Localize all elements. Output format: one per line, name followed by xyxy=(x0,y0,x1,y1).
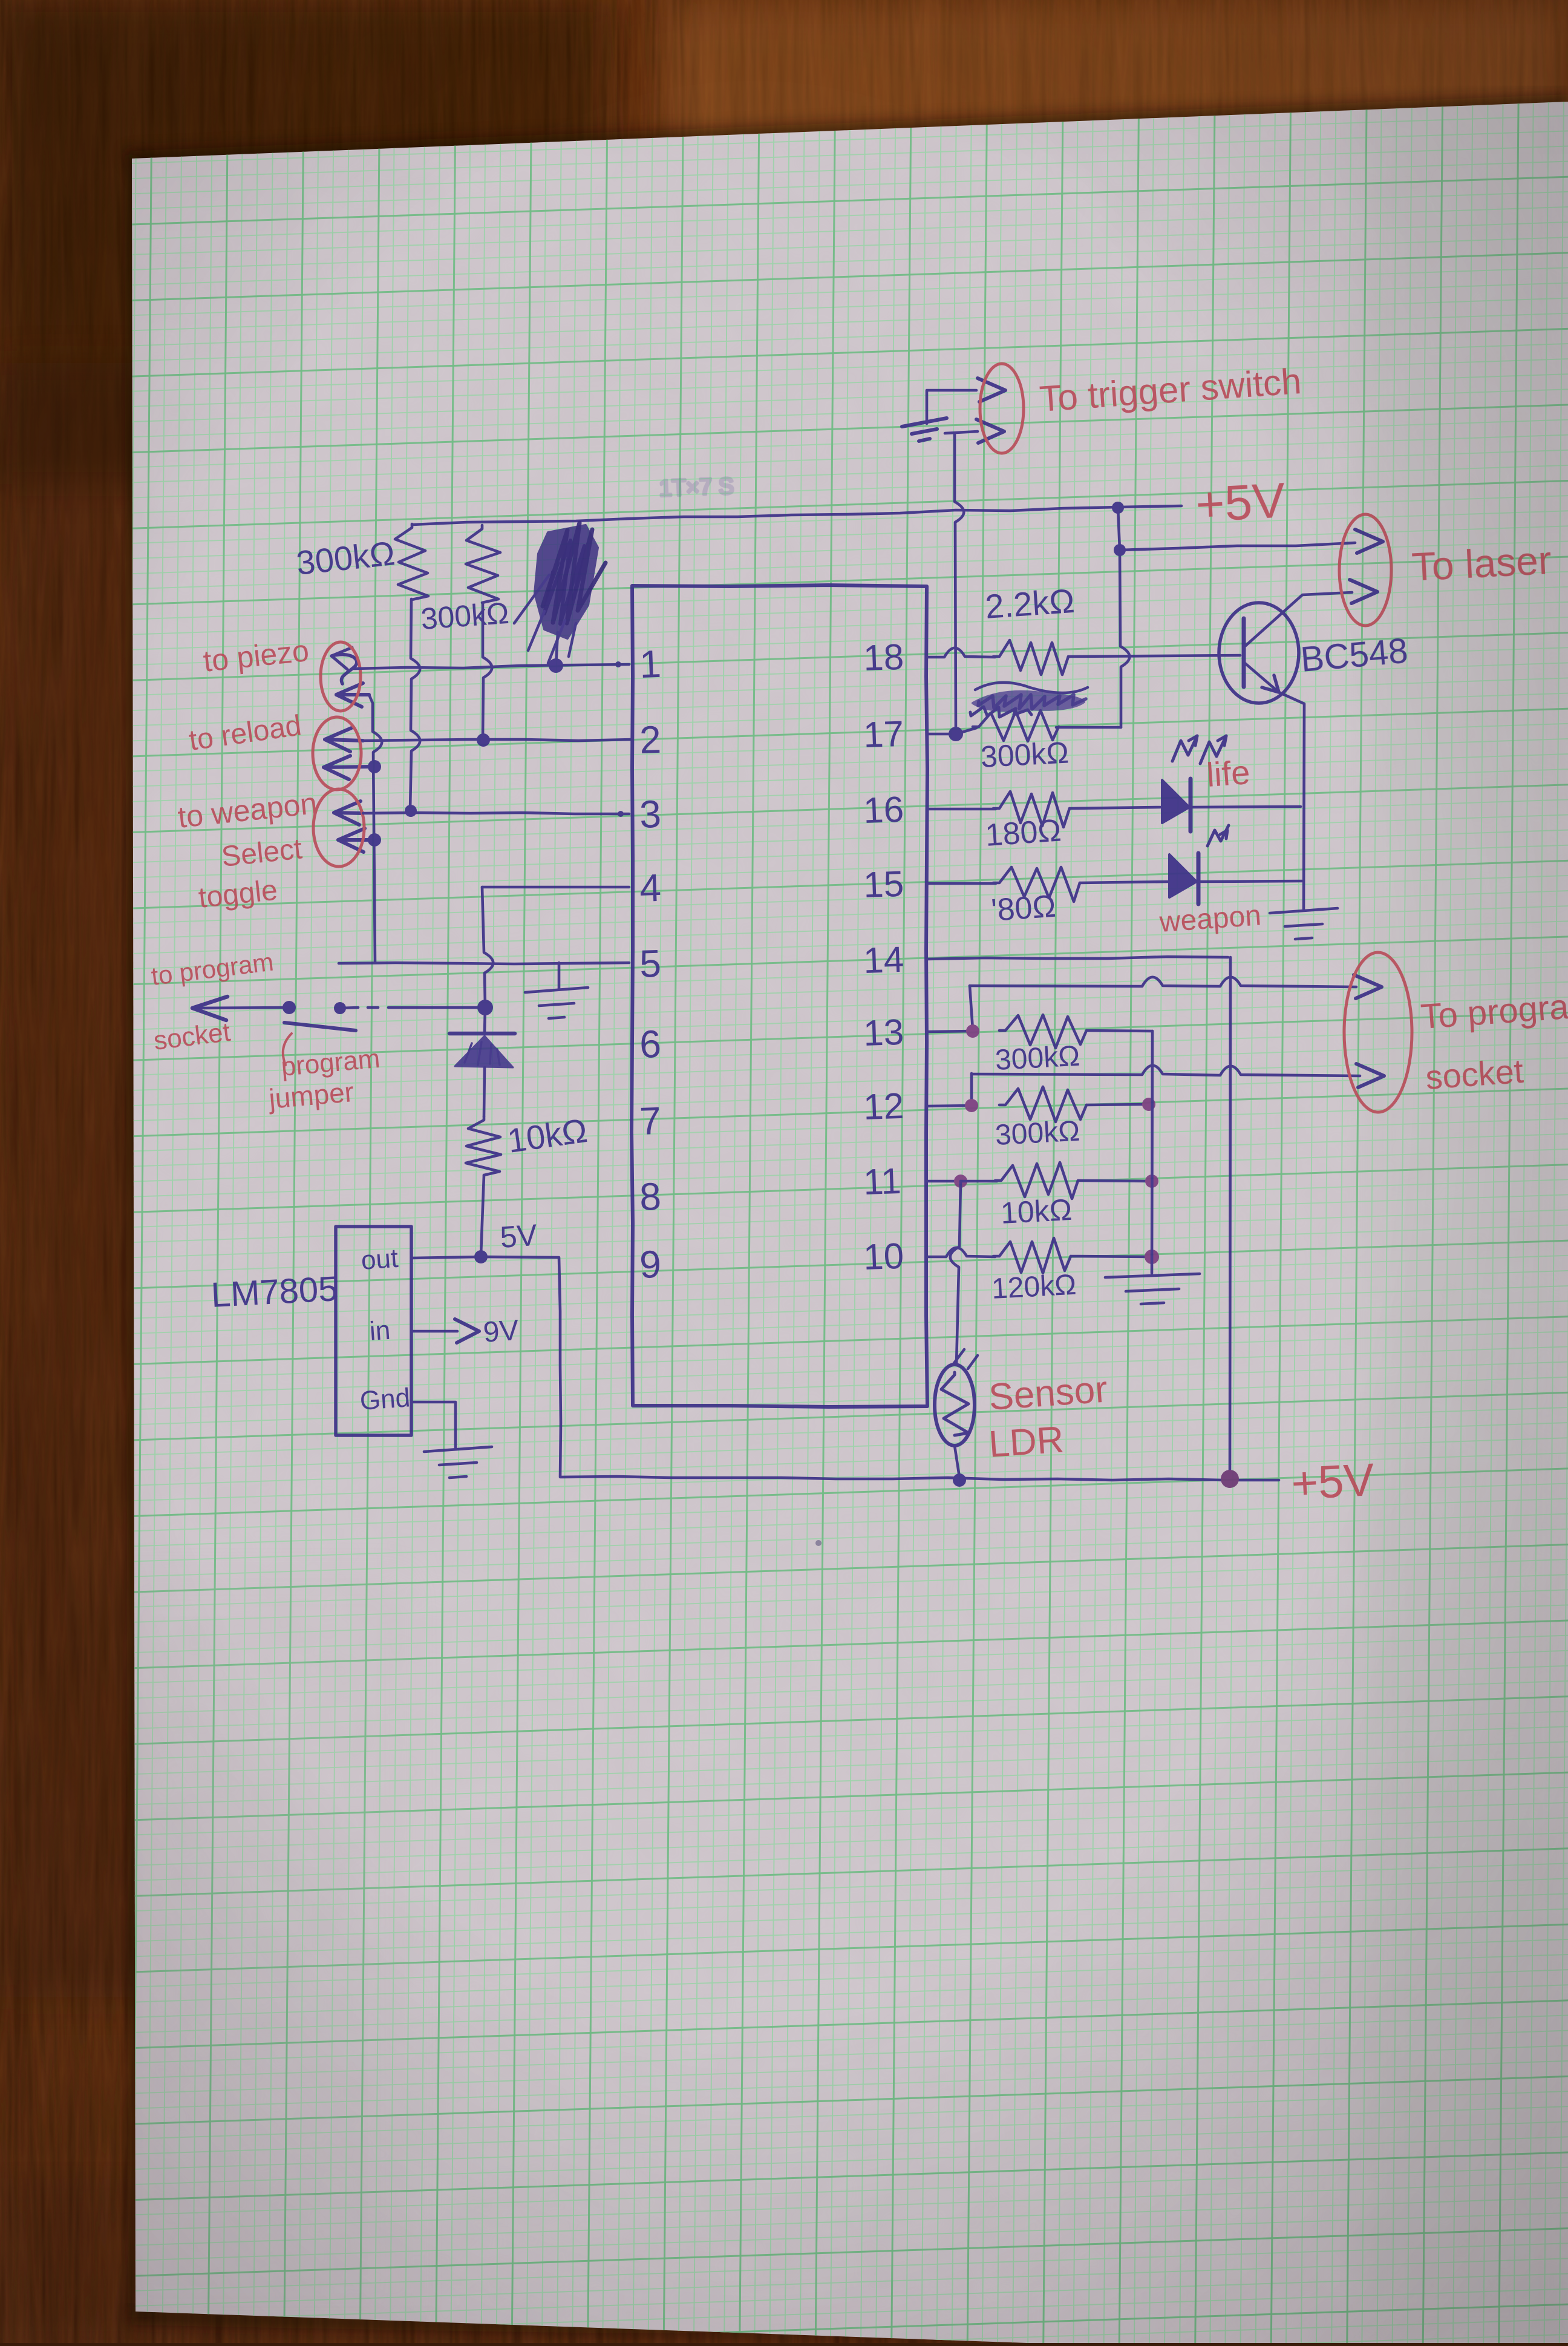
wire pin3 to IC xyxy=(363,813,629,814)
junction pin14 rail/+5V xyxy=(1221,1470,1239,1488)
wire R3 to 5V node xyxy=(481,1175,484,1255)
scribbled-out label above R5 xyxy=(973,692,1084,711)
wire pin17 xyxy=(927,733,956,736)
wire R6 to LED1 xyxy=(1070,807,1160,808)
wire pin4 to IC xyxy=(482,886,629,889)
junction pin11/LDR xyxy=(954,1175,967,1188)
wire R7 to LED2 xyxy=(1080,882,1168,883)
resistor R2 300kOhm xyxy=(466,525,500,603)
wire R10 to bus xyxy=(1078,1181,1152,1181)
ground symbol at trigger switch xyxy=(902,418,947,441)
red circle around piezo connector xyxy=(321,642,361,711)
wire pin17 to R5 xyxy=(956,728,976,734)
wire pin15 xyxy=(927,882,996,885)
wire diode to R3 xyxy=(484,1067,485,1116)
junction 5V node xyxy=(474,1250,488,1263)
arrow 9V input xyxy=(455,1319,479,1343)
light arrows LED2 xyxy=(1207,825,1229,846)
diode D1 (program) xyxy=(485,1008,485,1032)
resistor R7 180Ohm xyxy=(993,867,1080,902)
wire scribble to pin1 junction xyxy=(556,632,558,666)
wire resistor bus vertical xyxy=(1152,1031,1152,1273)
scribbled-out resistor (crossed out) on pin 1 xyxy=(535,525,598,638)
program jumper open-switch stroke xyxy=(284,1023,356,1030)
wire to laser (top) xyxy=(1120,543,1355,550)
transistor Q1 collector wire to laser (bottom) xyxy=(1245,592,1352,646)
red leader mark for jumper xyxy=(283,1034,292,1065)
junction bus/R10 xyxy=(1145,1175,1158,1188)
resistor R9 300kOhm xyxy=(999,1087,1086,1122)
wire pin5 (ground) xyxy=(339,963,629,964)
wire pin18 xyxy=(927,648,995,657)
junction jumper left xyxy=(283,1001,296,1014)
Q1 base bar xyxy=(1242,618,1246,687)
junction pin17/trigger xyxy=(949,727,963,741)
transistor Q1 BC548 xyxy=(1219,603,1299,703)
resistor R4 2.2kOhm xyxy=(993,640,1068,675)
wire program data (pin13) xyxy=(970,986,973,1030)
Q1 emitter xyxy=(1245,663,1279,692)
wire pin14 down to +5V bottom rail xyxy=(1230,957,1230,1478)
ground symbol at Q1 emitter xyxy=(1270,908,1338,939)
ground symbol at LM7805 xyxy=(424,1447,492,1478)
resistor R11 120kOhm xyxy=(993,1238,1071,1273)
junction +5V rail xyxy=(1112,502,1124,514)
wire LM7805 in xyxy=(411,1330,457,1333)
resistor R6 180Ohm xyxy=(993,791,1070,827)
wire pin4 down to program jumper node xyxy=(482,887,493,1007)
LED D2 'life' xyxy=(1162,780,1189,823)
wire to program socket with jumper xyxy=(192,1008,289,1008)
wire R9 to bus xyxy=(1086,1104,1149,1105)
wire LM7805 gnd to ground xyxy=(411,1402,456,1447)
wire pin16 xyxy=(927,808,996,811)
junction pin3/R1 xyxy=(405,805,417,817)
IC U1 (PIC16F628) body xyxy=(632,585,927,1407)
connector 'to weapon select toggle' arrows xyxy=(334,813,363,813)
light arrows LED1 xyxy=(1172,736,1197,761)
resistor R3 10kOhm xyxy=(466,1116,501,1175)
resistor R8 300kOhm xyxy=(999,1015,1086,1048)
ground symbol at pin5 xyxy=(558,963,561,989)
junction pin2/R2 xyxy=(477,733,490,747)
LDR light arrows xyxy=(953,1349,978,1369)
wire 5V node to bottom +5V rail xyxy=(481,1257,1279,1480)
wire pin12 xyxy=(927,1106,972,1106)
junction jumper right xyxy=(334,1002,346,1014)
wire +5V node down to R4/R5 xyxy=(1120,550,1129,727)
connector 'to trigger switch' xyxy=(927,390,976,424)
wire pin14 xyxy=(927,957,1228,959)
wire pin10 xyxy=(927,1248,995,1257)
wire R1 bottom to pin3 xyxy=(410,599,420,810)
wire pin11 xyxy=(927,1180,961,1183)
junction laser feed xyxy=(1114,544,1126,556)
wire trigger down to pin17 xyxy=(955,433,964,734)
sensor LDR xyxy=(935,1365,975,1446)
LED D3 'weapon' xyxy=(1169,854,1197,897)
junction pin1/scribble xyxy=(549,658,563,673)
wire R8 to bus xyxy=(1086,1030,1152,1031)
wire +5V to laser node xyxy=(1118,508,1120,550)
junction bus/R11 xyxy=(1145,1250,1159,1264)
wire piezo/reload/weapon common chain xyxy=(369,695,382,963)
junction pin4/diode/jumper node xyxy=(477,1000,493,1015)
connector 'to piezo' arrows xyxy=(332,655,357,684)
wire program clock (pin12) xyxy=(970,1073,973,1104)
wire Q1 emitter to ground xyxy=(1279,692,1304,909)
wire pin11 down to LDR xyxy=(950,1181,961,1365)
wire R4 to Q1 base xyxy=(1068,655,1240,657)
junction weapon lower arrow xyxy=(368,833,381,847)
wire LDR to +5V rail xyxy=(955,1446,959,1477)
junction bus/R9 xyxy=(1142,1098,1155,1111)
junction pin13 xyxy=(966,1024,979,1038)
junction reload lower arrow xyxy=(368,760,381,773)
wire pin1 to IC xyxy=(354,664,629,669)
wire R2 bottom to pin2 xyxy=(483,603,492,738)
stray pen dot xyxy=(815,1540,822,1546)
wire LED1 cathode to Q1 emitter line xyxy=(1191,807,1301,807)
junction pin12 xyxy=(965,1099,978,1112)
wire LM7805 out to 5V node xyxy=(411,1257,481,1258)
wire pin13 xyxy=(927,1031,973,1032)
wire LED2 cathode to Q1 emitter line xyxy=(1198,881,1302,882)
resistor R5 300kOhm xyxy=(973,710,1059,741)
resistor R1 300kOhm xyxy=(395,524,428,600)
wire R11 to bus xyxy=(1071,1256,1152,1257)
junction LDR/+5V rail xyxy=(953,1473,966,1487)
vignette xyxy=(0,0,1,1)
connector 'to reload' arrows xyxy=(325,739,363,741)
voltage regulator U2 LM7805 xyxy=(336,1227,411,1435)
wire +5V top rail xyxy=(413,506,1181,525)
wire to R5 right end xyxy=(1056,726,1121,729)
ground symbol at resistor bus xyxy=(1105,1274,1200,1304)
Q1 emitter arrowhead xyxy=(1262,675,1279,692)
wire pin2 to IC xyxy=(363,739,632,741)
resistor R10 10kOhm xyxy=(995,1162,1078,1199)
